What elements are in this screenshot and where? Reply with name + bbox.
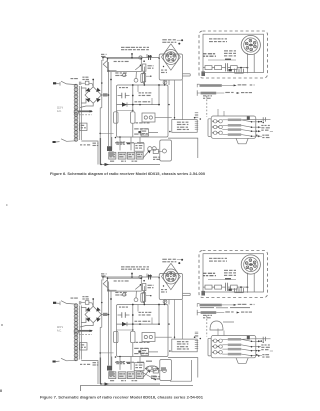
svg-text:Figure 7. Schematic diagram of: Figure 7. Schematic diagram of radio rec… bbox=[40, 396, 203, 400]
svg-text:Figure 6. Schematic diagram of: Figure 6. Schematic diagram of radio rec… bbox=[50, 172, 205, 176]
